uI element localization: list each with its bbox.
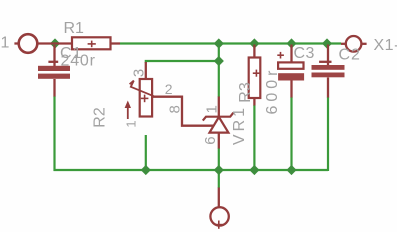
svg-text:R2: R2 bbox=[92, 107, 109, 128]
svg-text:6: 6 bbox=[202, 136, 219, 144]
svg-text:VR1: VR1 bbox=[231, 105, 248, 145]
svg-text:240r: 240r bbox=[61, 53, 96, 70]
svg-text:2: 2 bbox=[165, 81, 173, 97]
svg-text:600r: 600r bbox=[264, 66, 281, 114]
svg-text:1: 1 bbox=[124, 120, 139, 127]
svg-text:8: 8 bbox=[167, 105, 184, 113]
svg-text:R3: R3 bbox=[237, 82, 254, 103]
svg-text:R1: R1 bbox=[64, 20, 85, 37]
svg-text:1: 1 bbox=[203, 105, 220, 113]
svg-text:1: 1 bbox=[1, 35, 10, 52]
svg-text:X1-: X1- bbox=[374, 37, 397, 54]
svg-text:3: 3 bbox=[131, 69, 148, 77]
svg-text:C3: C3 bbox=[294, 45, 315, 62]
svg-text:C2: C2 bbox=[339, 47, 361, 64]
